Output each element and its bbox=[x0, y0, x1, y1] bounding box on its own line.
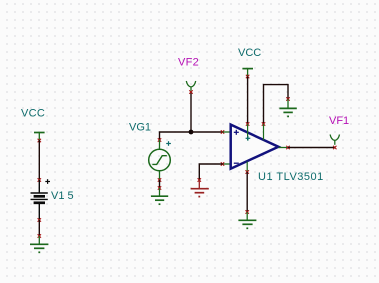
ground (battery) bbox=[30, 236, 48, 252]
wire node A to VF2 pin bbox=[190, 92, 192, 132]
power symbol VCC (top) bbox=[242, 69, 253, 77]
terminal x ground (V-) bbox=[286, 97, 289, 100]
pin stub U1 minus input bbox=[223, 163, 231, 165]
wire VCC to battery V1 bbox=[38, 140, 40, 180]
voltage pin VF1 bbox=[330, 135, 339, 145]
generator VG1 bbox=[149, 140, 171, 180]
wire VG1 to node A bbox=[160, 132, 192, 140]
ground (VG1) bbox=[151, 188, 168, 204]
pin stub U1 V- (bottom) bbox=[246, 162, 248, 173]
terminal x VF2 bbox=[189, 90, 192, 93]
wire U1 minus input to ground bbox=[199, 164, 222, 180]
terminal x VCC (top) bbox=[246, 75, 249, 78]
voltage pin VF2 bbox=[186, 81, 195, 91]
pin stub U1 output bbox=[279, 147, 288, 149]
battery V1 bbox=[31, 180, 48, 220]
terminal x ground (below U1) bbox=[246, 210, 249, 213]
svg-text:VG1: VG1 bbox=[129, 122, 151, 134]
terminal x U1 output bbox=[286, 146, 289, 149]
terminal x ground (minus input, selected red) bbox=[198, 178, 201, 181]
terminal x left VCC bbox=[38, 139, 41, 142]
wire VCC to U1 V+ pin bbox=[247, 77, 249, 125]
terminal x battery V1 minus bbox=[38, 218, 41, 221]
ground (V-) bbox=[279, 99, 296, 116]
svg-text:VF2: VF2 bbox=[178, 57, 199, 69]
wire node A to U1 plus input bbox=[191, 131, 223, 133]
wire VG1 to ground bbox=[159, 180, 161, 188]
pin stub U1 V+ bbox=[247, 124, 249, 141]
ground (minus input, red) bbox=[191, 180, 209, 197]
ground (below U1) bbox=[238, 212, 256, 228]
svg-text:VCC: VCC bbox=[238, 47, 261, 59]
terminal x U1 V+ bbox=[246, 122, 249, 125]
svg-text:U1 TLV3501: U1 TLV3501 bbox=[258, 171, 324, 183]
wire U1 output to VF1 pin bbox=[288, 147, 335, 149]
op-amp V+ polarity marker bbox=[246, 136, 251, 141]
op-amp U1 TLV3501 triangle bbox=[231, 125, 279, 169]
terminal x battery V1 plus bbox=[38, 178, 41, 181]
terminal x ground (battery) bbox=[38, 234, 41, 237]
terminal x U1 V- bbox=[262, 122, 265, 125]
VG1 plus sign bbox=[166, 141, 171, 146]
op-amp plus input marker bbox=[234, 130, 239, 135]
terminal x VF1 bbox=[333, 146, 336, 149]
power symbol VCC (left) bbox=[34, 133, 45, 141]
terminal x ground (VG1) bbox=[158, 186, 161, 189]
battery V1 plus sign bbox=[45, 179, 50, 184]
terminal x U1 plus input bbox=[221, 130, 224, 133]
svg-text:VF1: VF1 bbox=[329, 115, 349, 127]
wire U1 V- bottom to ground bbox=[246, 172, 248, 212]
wire U1 V- to ground (bend) bbox=[264, 85, 289, 124]
pin stub U1 V- bbox=[263, 124, 265, 140]
terminal x U1 minus input bbox=[221, 162, 224, 165]
node A junction dot bbox=[189, 130, 194, 135]
pin stub U1 plus input bbox=[223, 131, 231, 133]
svg-text:V1 5: V1 5 bbox=[51, 190, 74, 202]
terminal x VG1 plus bbox=[158, 138, 161, 141]
op-amp minus input marker bbox=[234, 162, 239, 164]
svg-text:VCC: VCC bbox=[21, 108, 45, 120]
terminal x U1 V- bottom bbox=[246, 170, 249, 173]
wire battery to ground bbox=[38, 220, 40, 236]
terminal x VG1 minus bbox=[158, 178, 161, 181]
